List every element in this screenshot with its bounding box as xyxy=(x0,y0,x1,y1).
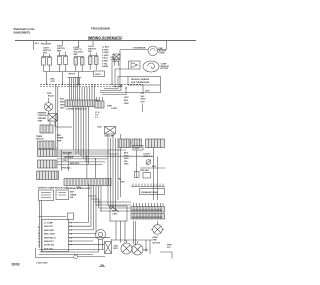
svg-text:N WHT: N WHT xyxy=(102,49,109,51)
node: compressor label xyxy=(161,63,170,70)
svg-text:MTR: MTR xyxy=(57,140,62,142)
svg-text:2 RED: 2 RED xyxy=(102,61,108,63)
node: drain heater label xyxy=(140,170,150,172)
node: tie label xyxy=(152,166,157,168)
wire: dispenser right drops xyxy=(146,240,150,254)
svg-text:FRS26ZNHW: FRS26ZNHW xyxy=(91,26,110,30)
wire: cold control tie xyxy=(56,126,72,128)
wire: right rail verticals xyxy=(154,148,158,200)
svg-text:CONNECTOR BLOCK: CONNECTOR BLOCK xyxy=(66,109,87,111)
svg-text:HTR: HTR xyxy=(51,81,56,83)
connector: mid row box 3 xyxy=(146,139,165,148)
node: control board row labels xyxy=(44,223,56,251)
node: bottom right text xyxy=(167,245,172,250)
switch: defrost thermostat xyxy=(113,54,120,66)
svg-text:1PH: 1PH xyxy=(141,101,145,103)
lamp L1 label xyxy=(43,48,51,55)
node: lower right motor label xyxy=(153,236,161,244)
svg-text:AUG: AUG xyxy=(114,245,119,248)
svg-text:ORG: ORG xyxy=(124,164,129,166)
svg-text:TIMER: TIMER xyxy=(36,136,43,138)
node: relay row label text xyxy=(38,186,68,189)
svg-text:ICEMAKER HEAD: ICEMAKER HEAD xyxy=(141,191,158,194)
svg-text:60HZ: 60HZ xyxy=(141,99,147,101)
svg-text:SW: SW xyxy=(70,197,73,199)
svg-text:WHT: WHT xyxy=(124,155,129,157)
wire: far-left vertical rails lower xyxy=(40,201,42,253)
svg-text:WIRING SCHEMATIC: WIRING SCHEMATIC xyxy=(88,36,123,40)
wire: board pin stubs xyxy=(69,223,73,245)
wire: verticals from strips to dispenser xyxy=(116,221,136,245)
wire: page header rule xyxy=(15,40,196,42)
wire: harness group right part xyxy=(82,84,95,100)
node: bottom strip label xyxy=(66,187,91,190)
node: defrost heater label xyxy=(131,78,150,84)
svg-text:VLV: VLV xyxy=(167,247,171,249)
node: fan wire label xyxy=(133,47,146,49)
svg-text:CONTROL: CONTROL xyxy=(38,115,49,117)
lamp L5: mullion lamp circle xyxy=(44,98,52,114)
wire: long horizontal run 1 xyxy=(57,151,110,153)
svg-text:DISP: DISP xyxy=(112,211,117,213)
connector: dispenser strip row 2 xyxy=(131,214,165,220)
connector J1: main harness strip xyxy=(65,100,99,107)
svg-text:L1 COMP: L1 COMP xyxy=(44,223,54,225)
node: rotated text left of board xyxy=(38,227,40,247)
wire: dispenser ties xyxy=(112,239,153,241)
wire: dashed neutral bus upper xyxy=(40,83,143,85)
relay: compressor start device xyxy=(129,61,141,69)
wire: band vertical drops xyxy=(61,150,95,179)
svg-text:BLK: BLK xyxy=(98,127,103,129)
wire: motor drop xyxy=(157,221,159,225)
svg-text:DEFROST TIMER MOTOR CAM: DEFROST TIMER MOTOR CAM xyxy=(38,186,68,189)
connector: left strip E xyxy=(38,150,58,157)
svg-text:MOTOR: MOTOR xyxy=(153,242,161,244)
motor M2: compressor xyxy=(143,61,159,72)
node: defrost limit label xyxy=(105,136,116,138)
relay: timer box A xyxy=(39,190,54,201)
svg-text:L1 BLK: L1 BLK xyxy=(102,47,110,49)
svg-text:TIMER: TIMER xyxy=(70,194,77,196)
wire: heater drop xyxy=(142,85,144,93)
svg-text:MOTOR: MOTOR xyxy=(161,68,169,70)
wire: bottom right corner bracket xyxy=(160,252,172,259)
relay: timer box B xyxy=(56,190,69,200)
node: rotated chain labels xyxy=(124,153,129,166)
wire: verticals upper right of timers xyxy=(89,184,102,211)
connector: left cluster D strip xyxy=(38,141,55,149)
node: small label above xyxy=(76,186,81,189)
motor M1: condenser fan xyxy=(148,46,158,56)
wire: lamp return bus xyxy=(44,71,94,73)
node: harness strip label xyxy=(66,109,87,111)
svg-text:-26-: -26- xyxy=(99,264,105,268)
motor M3: auger motor circle xyxy=(121,240,132,254)
svg-text:DEF HTR: DEF HTR xyxy=(44,226,53,228)
wire: L-bend mid xyxy=(104,88,118,90)
wire: board fanout staircase xyxy=(72,223,94,230)
switch: cold control xyxy=(48,114,57,128)
node: cluster B label xyxy=(36,136,44,141)
lamp L2 socket pair xyxy=(58,52,68,72)
wire: board fanout lower xyxy=(72,205,110,245)
connector: left cluster B xyxy=(40,125,53,133)
svg-text:EVAP: EVAP xyxy=(153,236,159,239)
wire: long horizontal run 0 xyxy=(57,149,126,151)
node: diag text bottom left of rails xyxy=(118,179,126,184)
svg-text:ORG: ORG xyxy=(145,91,150,93)
svg-text:DAMPER: DAMPER xyxy=(38,112,47,115)
lamp L3 label xyxy=(74,47,84,56)
svg-text:MTR: MTR xyxy=(114,248,119,250)
node: polarity marks xyxy=(47,93,52,95)
node: small junction box xyxy=(94,71,105,77)
switch: door switch symbol xyxy=(146,160,151,165)
box: line filter xyxy=(133,146,143,151)
lamp L1 socket pair xyxy=(42,54,52,72)
svg-text:STAT: STAT xyxy=(38,120,44,123)
node: tiny label under rule left xyxy=(35,43,40,45)
svg-text:BLK: BLK xyxy=(152,166,157,168)
svg-text:WTR: WTR xyxy=(167,245,172,247)
connector: mid row box 2 xyxy=(132,139,142,148)
svg-text:BLK WHT: BLK WHT xyxy=(63,153,73,155)
wire: right-mid vertical rail 5 xyxy=(117,138,119,200)
wire: L-bend to start relay xyxy=(112,62,118,85)
svg-text:3 YEL: 3 YEL xyxy=(102,63,108,65)
svg-text:DOOR SW: DOOR SW xyxy=(44,245,54,247)
node: strip row 2 text xyxy=(132,217,163,219)
lamp L4 socket pair xyxy=(89,52,99,70)
svg-text:CORD: CORD xyxy=(111,108,117,110)
svg-text:GRN: GRN xyxy=(124,158,129,160)
switch: defrost limit box xyxy=(105,127,116,135)
wire: drop to cluster 3 xyxy=(78,41,80,47)
svg-text:WHT: WHT xyxy=(124,97,129,99)
svg-text:SWITCH: SWITCH xyxy=(144,156,152,158)
svg-text:VAC: VAC xyxy=(141,95,146,98)
wire: board fanout risers xyxy=(89,196,94,230)
node: left mid labels xyxy=(60,99,65,110)
wire: long horizontal run 4 xyxy=(57,158,108,160)
svg-text:GRY: GRY xyxy=(121,181,126,183)
wire: right-mid vertical rail 6 xyxy=(120,134,122,197)
wire: long horizontal run 2 xyxy=(57,152,118,154)
svg-text:WHT N: WHT N xyxy=(69,74,76,76)
node: strip row 1 text xyxy=(132,210,163,212)
node: bus wire label xyxy=(69,74,76,76)
svg-text:BLK: BLK xyxy=(124,153,129,155)
node: left control stack text A xyxy=(38,112,49,123)
component: small box in chain xyxy=(135,172,140,178)
node: bulb label xyxy=(48,96,54,98)
lamp L2 label xyxy=(57,46,65,53)
node: label row above lamp cluster 1 xyxy=(41,43,52,45)
node: line cord label xyxy=(37,263,49,265)
svg-text:BLK: BLK xyxy=(60,99,65,101)
wire: vertical pair left mid xyxy=(56,84,58,148)
svg-text:1 BLU: 1 BLU xyxy=(102,58,108,60)
wire: vertical harness group xyxy=(70,78,80,101)
box: icemaker head xyxy=(140,189,165,195)
node: relay text right xyxy=(70,192,77,199)
node: line filter label xyxy=(135,148,140,150)
wire: long horizontal run 6 xyxy=(57,164,103,166)
node: run labels xyxy=(62,153,80,170)
wire: bus lower line xyxy=(100,85,161,93)
connector J2: small strip right xyxy=(95,97,104,108)
svg-text:BLKWHTGRNORGYELREDBRN: BLKWHTGRNORGYELREDBRN xyxy=(132,210,163,212)
wire: 120VAC drop xyxy=(142,104,144,113)
wire: bottom tie line xyxy=(39,216,67,218)
wire: right-mid vertical rail 3 xyxy=(112,134,114,207)
wire: lamp cluster drops to bus xyxy=(47,72,79,85)
node: dispenser box labels xyxy=(112,211,118,216)
node: 120VAC rotated label xyxy=(141,93,147,103)
svg-text:FAN EVAP: FAN EVAP xyxy=(44,229,55,232)
node: mullion heater label xyxy=(51,79,56,83)
svg-text:FAN: FAN xyxy=(153,239,158,242)
connector: long bottom strip xyxy=(64,179,111,186)
wire: L-bend lower xyxy=(100,85,121,91)
wire: left drop from header rule xyxy=(33,41,35,50)
svg-text:ORG: ORG xyxy=(60,108,65,110)
wire: right-mid vertical rail 1 xyxy=(107,134,109,205)
svg-text:P ORG: P ORG xyxy=(102,55,109,57)
node: icemaker label xyxy=(141,191,158,194)
plug: line cord circle xyxy=(74,255,78,259)
comb: icemaker pin row xyxy=(131,184,165,187)
node: junction box label xyxy=(95,74,102,76)
node: text under buses xyxy=(107,105,117,110)
svg-text:THERMO: THERMO xyxy=(38,118,47,120)
node: publication number text xyxy=(14,27,36,34)
svg-text:BLK: BLK xyxy=(124,100,129,102)
lamp: dispenser lamp circle xyxy=(132,241,143,255)
svg-text:DOOR: DOOR xyxy=(144,154,151,156)
wire: harness verticals below strip xyxy=(74,107,89,165)
wire: L-bend lowest xyxy=(102,88,126,95)
svg-text:20/03: 20/03 xyxy=(12,262,20,266)
svg-text:WHT: WHT xyxy=(47,93,52,95)
node: junction dots xyxy=(46,84,136,245)
svg-text:CAM: CAM xyxy=(76,186,81,189)
wire: lamp feed tie bar xyxy=(68,77,82,79)
svg-text:SENSOR T: SENSOR T xyxy=(44,241,55,243)
wire: horizontal tie y168 xyxy=(140,167,165,169)
node: dispenser right labels xyxy=(144,250,149,252)
svg-text:LINE CORD: LINE CORD xyxy=(37,263,49,265)
heater: drain heater box xyxy=(143,173,151,179)
comb: teeth above dispenser strip row 1 xyxy=(134,203,164,207)
wire: L-bend to heater box xyxy=(118,77,128,89)
svg-text:AUX OUT: AUX OUT xyxy=(44,247,54,250)
wire: staircase bundle to lower connectors xyxy=(89,196,132,211)
wire: right-mid vertical rail 2 xyxy=(110,138,112,205)
connector: mid row box 1 xyxy=(119,139,131,148)
wire: L-bend to fan feed xyxy=(119,50,121,87)
wire: bottom horizontals xyxy=(39,250,105,255)
svg-text:PWR: PWR xyxy=(107,105,112,107)
svg-text:AND THERMOSTAT: AND THERMOSTAT xyxy=(131,81,150,84)
node: wire label xyxy=(145,91,150,93)
svg-text:BULB: BULB xyxy=(48,96,54,98)
svg-text:HTR WHT: HTR WHT xyxy=(140,170,150,172)
wire: right-mid vertical rail 4 xyxy=(115,138,117,209)
svg-text:GRN: GRN xyxy=(60,105,65,107)
wire: long horizontal run 3 xyxy=(57,155,154,157)
svg-text:G GRN: G GRN xyxy=(102,52,109,54)
wire: rail diagonal jogs into dispenser box xyxy=(108,205,119,212)
alarm: buzzer symbol xyxy=(96,230,106,253)
motor M4: fan motor lower right xyxy=(151,225,164,235)
node: defrost thermostat label xyxy=(111,57,118,61)
wire: drop to cluster 1 xyxy=(46,41,48,45)
wire: long horizontal run 5 xyxy=(57,161,105,163)
node: fan motor label xyxy=(159,47,167,55)
wire: staircase risers xyxy=(96,196,99,205)
svg-text:CTRL: CTRL xyxy=(112,214,118,216)
svg-text:4 BRN: 4 BRN xyxy=(102,65,109,68)
wire: condenser fan feed xyxy=(120,49,148,51)
svg-text:WHT: WHT xyxy=(60,102,65,104)
wire: drop to cluster 2 xyxy=(62,41,64,45)
node: small mid component xyxy=(114,245,119,251)
svg-text:DEF LIMIT: DEF LIMIT xyxy=(105,136,116,138)
box: dispenser control tall box xyxy=(110,206,127,221)
lamp: dispenser box with X xyxy=(105,242,112,254)
node: small strip pin labels xyxy=(95,112,100,119)
wire: right power drop xyxy=(166,41,168,50)
svg-text:CONDENSER: CONDENSER xyxy=(133,47,146,49)
board: electronic control board xyxy=(42,220,69,252)
svg-text:BRN GRY: BRN GRY xyxy=(70,163,80,165)
wire: line cord continuation xyxy=(78,256,105,258)
svg-text:PNK BLU: PNK BLU xyxy=(62,168,71,170)
svg-text:MOTOR: MOTOR xyxy=(36,139,44,141)
wire: L-bend to compressor xyxy=(115,69,129,87)
node: terminal column labels xyxy=(102,47,110,69)
wire: dashed neutral bus lower xyxy=(40,86,124,88)
connector: dispenser strip row 1 xyxy=(131,207,165,213)
heater: defrost heater box xyxy=(128,77,161,86)
svg-text:GRN: GRN xyxy=(144,250,149,252)
wire: fan to right drop xyxy=(158,49,167,51)
svg-text:DEFROST HEATER: DEFROST HEATER xyxy=(131,78,150,81)
svg-text:TIMER: TIMER xyxy=(57,138,64,140)
node: wire label stack mid xyxy=(124,97,129,105)
box: left cluster F xyxy=(38,160,58,168)
lamp L4 label xyxy=(88,46,96,53)
node: chain labels right xyxy=(144,154,152,159)
node: mid text rows xyxy=(57,135,64,143)
svg-text:J-BOX: J-BOX xyxy=(95,74,102,76)
svg-text:ORG RED: ORG RED xyxy=(64,157,74,159)
wire: drop to cluster 4 xyxy=(92,41,94,45)
svg-text:GRN: GRN xyxy=(124,103,129,105)
svg-text:BLKWHTGRNORGYELREDBRN: BLKWHTGRNORGYELREDBRN xyxy=(132,217,163,219)
connector: left strip G xyxy=(37,171,59,180)
wire: chain vertical xyxy=(136,150,138,178)
node: small text mid xyxy=(98,127,103,129)
svg-text:NEUTRAL N: NEUTRAL N xyxy=(44,236,56,239)
svg-text:FAN COND: FAN COND xyxy=(44,233,55,236)
wire: line cord bracket xyxy=(36,248,74,258)
svg-text:COND: COND xyxy=(159,53,165,55)
svg-text:5995358875: 5995358875 xyxy=(14,30,31,34)
node: control board pad column xyxy=(70,223,73,247)
box: small fuse box xyxy=(68,213,74,220)
lamp L3 socket pair xyxy=(74,57,84,72)
